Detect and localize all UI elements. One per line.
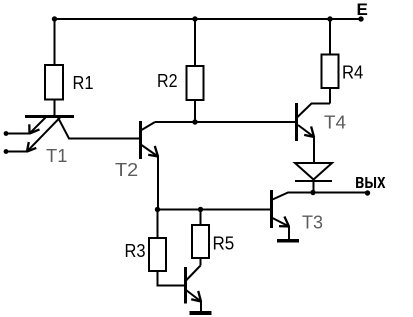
svg-text:R2: R2 <box>157 70 178 91</box>
svg-text:R3: R3 <box>125 240 146 261</box>
svg-text:E: E <box>357 0 368 19</box>
svg-text:T1: T1 <box>46 145 67 166</box>
svg-text:R4: R4 <box>342 62 363 83</box>
svg-text:R1: R1 <box>73 72 94 93</box>
svg-text:R5: R5 <box>213 233 235 254</box>
svg-text:T3: T3 <box>302 212 323 233</box>
svg-text:вых: вых <box>355 171 386 193</box>
svg-text:T2: T2 <box>115 159 138 180</box>
svg-text:T4: T4 <box>324 112 346 133</box>
